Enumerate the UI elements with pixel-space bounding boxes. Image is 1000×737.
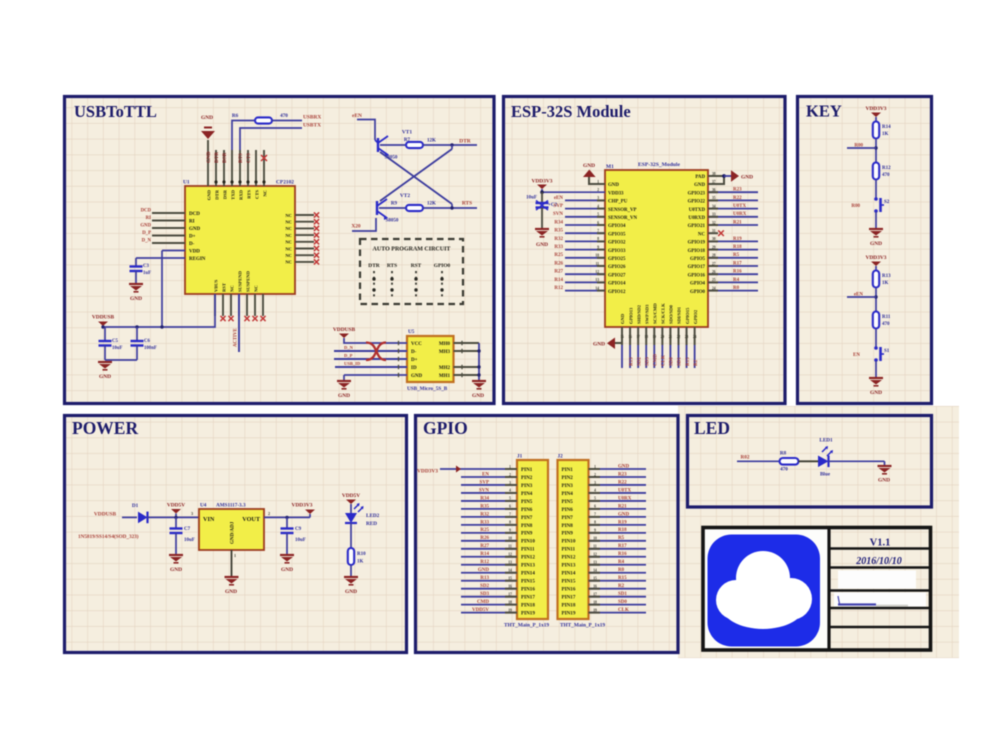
svg-text:PIN15: PIN15 [562,579,576,585]
svg-text:R18: R18 [618,528,627,533]
svg-text:12: 12 [508,553,512,557]
svg-text:R21: R21 [733,220,742,225]
whiteout patch row3 [838,571,916,589]
label GND [593,342,605,348]
designator C3 [143,264,149,269]
wire net VCC [344,338,407,343]
svg-text:PIN16: PIN16 [562,587,576,593]
crossover marker [366,343,386,361]
svg-text:MH0: MH0 [439,342,451,347]
svg-text:C5: C5 [112,339,118,344]
value CP2102 [276,180,294,186]
svg-text:PIN1: PIN1 [562,467,574,473]
net label eEN [854,293,864,298]
svg-text:PIN18: PIN18 [521,603,535,609]
svg-text:VDD5V: VDD5V [167,502,185,508]
svg-text:17: 17 [593,592,597,596]
svg-text:SCS/CMD: SCS/CMD [652,303,657,324]
wire net REGIN [136,257,185,259]
svg-text:12K: 12K [427,139,436,144]
value 10uF [184,538,195,543]
svg-text:GND: GND [870,241,882,247]
resistor R8 [780,458,799,465]
wire [135,258,137,267]
svg-text:470: 470 [280,113,288,119]
svg-text:GPIO17: GPIO17 [688,265,706,270]
pin number 3 [191,511,193,516]
svg-text:PIN9: PIN9 [521,531,533,537]
junction [174,516,177,519]
net label D_P [142,231,151,236]
svg-text:PIN9: PIN9 [562,531,574,537]
svg-text:GND: GND [338,393,350,399]
junction [450,206,453,209]
svg-text:PIN11: PIN11 [562,547,576,553]
ground power up [583,170,596,178]
svg-text:11: 11 [508,545,512,549]
svg-text:PIN8: PIN8 [562,523,574,529]
wire net ID [335,366,407,368]
svg-text:U0RXD: U0RXD [688,216,705,221]
svg-text:18: 18 [508,600,512,604]
wire net R00 [847,147,876,149]
svg-text:eEN: eEN [352,113,362,119]
svg-text:PIN13: PIN13 [562,563,576,569]
svg-text:15: 15 [593,577,597,581]
svg-text:TXD: TXD [231,189,236,199]
label GND [870,390,882,396]
svg-text:4: 4 [509,489,511,493]
svg-text:S2: S2 [884,200,890,205]
value 12K [427,139,436,144]
svg-text:14: 14 [508,569,512,573]
resistor R12 [873,163,879,180]
svg-text:D_N: D_N [142,239,152,244]
svg-text:R35: R35 [554,229,563,234]
svg-text:POWER: POWER [72,418,138,438]
wire [541,208,543,230]
svg-text:5: 5 [594,497,596,501]
value THT_Main_P_1x19 [560,623,605,629]
resistor R11 [873,312,879,329]
transistor VT2 [377,199,388,220]
wire [122,516,137,518]
svg-text:1uF: 1uF [143,271,151,276]
junction [874,295,877,298]
svg-text:22: 22 [677,335,681,339]
junction [540,190,544,194]
svg-text:R6: R6 [232,113,239,119]
svg-text:5: 5 [509,497,511,501]
svg-text:CMD: CMD [477,600,489,605]
svg-text:RTS: RTS [238,153,244,163]
wire net ACTIVE [238,294,240,352]
svg-text:DTR: DTR [459,139,470,145]
svg-text:14: 14 [593,569,597,573]
wires ESP right pins [708,192,758,290]
capacitor C9 [281,517,294,555]
svg-text:32: 32 [712,221,716,225]
net label GND [140,224,151,229]
svg-text:MH1: MH1 [439,374,451,379]
svg-text:DCD: DCD [189,212,200,217]
svg-text:RTS: RTS [247,190,252,199]
svg-text:R00: R00 [851,204,860,209]
svg-text:U0TX: U0TX [733,204,746,209]
pin number 1 [234,553,236,558]
svg-text:14: 14 [595,286,599,290]
net labels ESP bottom [629,354,699,366]
wire [451,204,453,208]
svg-text:PIN10: PIN10 [521,539,535,545]
svg-text:37: 37 [712,180,716,184]
svg-text:X20: X20 [351,224,361,230]
svg-text:U4: U4 [200,503,207,509]
wire [350,565,352,577]
svg-text:R10: R10 [357,552,366,557]
svg-text:PIN13: PIN13 [521,563,535,569]
svg-text:19: 19 [508,608,512,612]
auto program signals DTR RTS RST GPIO0 [368,263,450,299]
svg-text:2: 2 [594,473,596,477]
svg-text:VDDUSB: VDDUSB [92,315,115,321]
svg-text:USB_Micro_5S_B: USB_Micro_5S_B [407,386,448,392]
svg-text:1: 1 [594,465,596,469]
power VDD3V3 [292,502,315,517]
svg-text:U0TXD: U0TXD [689,208,706,213]
svg-text:PIN4: PIN4 [562,491,574,497]
svg-text:GPIO16: GPIO16 [688,273,706,278]
svg-text:RI: RI [189,220,195,225]
net label eEN [352,113,362,119]
wire [737,460,779,462]
wire net DTR [423,144,477,146]
svg-text:2016/10/10: 2016/10/10 [855,556,902,567]
svg-text:21: 21 [669,335,673,339]
svg-text:SUSPEND: SUSPEND [238,270,243,292]
svg-text:GND: GND [536,242,548,248]
value ESP-32S_Module [638,162,680,168]
svg-text:3: 3 [191,511,193,516]
svg-text:GPIO12: GPIO12 [608,290,626,295]
switch S1 [874,346,884,362]
svg-text:35: 35 [712,196,716,200]
svg-text:PIN19: PIN19 [521,611,535,617]
pin numbers GPIO [508,465,597,613]
svg-text:GND: GND [478,568,490,573]
svg-text:R4: R4 [618,560,625,565]
schematic sheet backing lower-right [678,406,959,658]
svg-text:USBRX: USBRX [303,114,321,120]
panel KEY [798,97,932,404]
label GND [583,163,595,169]
net label DCD [141,209,152,214]
svg-text:SD2: SD2 [480,584,489,589]
ground [878,466,892,474]
label AUTO PROGRAM CIRCUIT [373,247,451,253]
capacitor C3 [130,267,143,272]
date 2016/10/10 [855,556,902,567]
value RED [366,521,377,527]
svg-text:1: 1 [234,553,236,558]
svg-text:THT_Main_P_1x19: THT_Main_P_1x19 [560,623,605,629]
designator R10 [357,552,366,557]
svg-text:9: 9 [509,529,511,533]
svg-text:RI: RI [146,216,151,221]
svg-text:13: 13 [508,561,512,565]
svg-text:GPIO0: GPIO0 [434,263,451,269]
svg-text:GPIO33: GPIO33 [608,249,626,254]
wire [350,504,352,513]
svg-text:38: 38 [712,172,716,176]
label GND [338,393,350,399]
connector U5 USB_Micro [407,336,454,382]
svg-text:26: 26 [712,270,716,274]
svg-text:R5: R5 [733,253,740,258]
svg-text:23: 23 [685,335,689,339]
resistor R6 [255,117,272,123]
svg-text:PIN14: PIN14 [562,571,576,577]
wire net VDDUSB [103,294,215,327]
title ESP-32S Module [511,102,631,121]
svg-text:PIN2: PIN2 [521,475,533,481]
junction [101,325,163,328]
svg-text:PIN7: PIN7 [521,515,533,521]
svg-text:27: 27 [712,262,716,266]
svg-text:M1: M1 [606,164,614,170]
svg-text:S1: S1 [884,349,890,354]
svg-text:GND: GND [741,175,753,181]
svg-text:VDD33: VDD33 [608,191,624,196]
svg-text:19: 19 [652,335,656,339]
svg-text:SD2: SD2 [637,357,642,366]
svg-text:10uF: 10uF [526,196,537,201]
resistor R13 [873,271,879,288]
svg-text:R14: R14 [882,125,891,130]
wire net D- [334,350,407,352]
wire [207,140,209,150]
value 470 [882,173,890,178]
svg-text:6: 6 [594,505,596,509]
label GND [741,175,753,181]
svg-text:10: 10 [593,537,597,541]
svg-text:R12: R12 [882,166,891,171]
svg-text:VOUT: VOUT [242,516,261,523]
pin labels RTS CTS [238,153,252,163]
U5 mount pins [454,343,480,375]
svg-text:PIN2: PIN2 [562,475,574,481]
svg-text:R13: R13 [882,274,891,279]
svg-text:DTR: DTR [368,263,379,269]
svg-text:R27: R27 [554,270,563,275]
svg-text:NC: NC [254,285,259,292]
svg-text:ID: ID [411,366,417,371]
wire [875,329,877,348]
svg-text:VDD3V3: VDD3V3 [292,502,313,508]
value 470 [882,322,890,327]
module M1 ESP-32S [605,170,708,327]
designator LED1 [819,438,833,444]
title block row lines [829,549,931,628]
svg-text:R15: R15 [618,576,627,581]
svg-text:1K: 1K [357,560,364,565]
led LED1 [818,446,833,467]
svg-text:16: 16 [508,585,512,589]
svg-text:PIN11: PIN11 [521,547,535,553]
wires J2 right [589,469,647,613]
svg-text:1K: 1K [882,281,889,286]
svg-text:13: 13 [595,278,599,282]
svg-text:NC: NC [263,190,268,197]
svg-text:EN: EN [482,472,489,477]
pin numbers ESP right [712,172,716,291]
svg-text:33: 33 [712,213,716,217]
svg-text:GND: GND [878,478,890,484]
svg-text:6: 6 [597,221,599,225]
svg-text:RST: RST [411,263,422,269]
wire cross [380,149,452,204]
net label USBTX [303,122,321,128]
svg-text:GPIO19: GPIO19 [688,241,706,246]
svg-text:VDD3V3: VDD3V3 [417,469,438,475]
svg-text:R25: R25 [554,253,563,258]
svg-text:SVN: SVN [553,212,563,217]
svg-text:GPIO: GPIO [423,418,468,438]
svg-text:USBToTTL: USBToTTL [74,102,157,121]
svg-text:SD1: SD1 [618,592,627,597]
designator U4 [200,503,207,509]
power VDD3V3 [532,178,553,189]
svg-text:GPIO25: GPIO25 [608,257,626,262]
wire [264,516,310,518]
svg-text:9: 9 [597,245,599,249]
designator J1 [517,454,523,460]
wire net USBTX [240,128,302,150]
wire [478,343,480,381]
net label EN [853,353,860,358]
junction [722,174,726,178]
svg-text:NC: NC [285,260,292,265]
power VDD5V [342,493,360,504]
svg-text:PIN14: PIN14 [521,571,535,577]
svg-text:NC: NC [285,253,292,258]
svg-text:GPIO18: GPIO18 [688,249,706,254]
svg-text:V1.1: V1.1 [870,538,891,549]
svg-text:24: 24 [693,335,697,339]
svg-text:GND: GND [130,296,142,302]
designator R9 [391,202,398,207]
svg-text:GPIO14: GPIO14 [608,282,626,287]
designator R6 [232,113,239,119]
pin number 2 [268,511,270,516]
svg-text:GPIO13: GPIO13 [628,307,633,324]
resistor R9 [406,205,423,211]
svg-text:R11: R11 [882,315,891,320]
svg-text:THT_Main_P_1x19: THT_Main_P_1x19 [504,623,549,629]
svg-text:SWP/SD3: SWP/SD3 [644,304,649,324]
svg-text:8: 8 [509,521,511,525]
power VDD3V3 [866,255,887,266]
svg-text:RST: RST [222,283,227,292]
svg-text:9: 9 [594,529,596,533]
title USBToTTL [74,102,157,121]
wire [875,117,877,122]
svg-text:C6: C6 [144,339,150,344]
svg-text:25: 25 [712,278,716,282]
label GND [345,589,357,595]
power VDD3V3 [417,466,461,475]
svg-text:R0: R0 [618,568,625,573]
svg-text:VDDUSB: VDDUSB [333,327,356,333]
signature tick [838,596,840,604]
connector J1 [517,460,548,619]
junction [477,349,480,376]
svg-text:13: 13 [593,561,597,565]
capacitor C7 [170,517,183,555]
svg-text:2: 2 [597,188,599,192]
svg-text:R9: R9 [391,202,398,207]
svg-text:SHD/SD2: SHD/SD2 [636,304,641,324]
net label VDDUSB [94,512,117,518]
svg-text:VDD3V3: VDD3V3 [532,178,553,184]
svg-text:R8: R8 [780,451,787,457]
resistor R14 [873,122,879,139]
svg-text:10uF: 10uF [295,538,306,543]
wire [380,144,405,146]
title GPIO [423,418,468,438]
label GND [170,567,182,573]
svg-text:R14: R14 [480,552,489,557]
wire net PAD [708,176,724,184]
wire net USBRX [232,121,254,151]
label GND [130,296,142,302]
svg-text:3: 3 [509,481,511,485]
value Blue [820,472,831,478]
net labels GPIO left [472,472,489,613]
svg-text:17: 17 [636,335,640,339]
svg-text:NC: NC [285,233,292,238]
svg-text:10uF: 10uF [112,346,122,351]
svg-text:CLK: CLK [662,355,667,366]
wire [379,207,405,209]
svg-text:2: 2 [268,511,270,516]
power VDDUSB [92,315,115,326]
svg-text:R12: R12 [480,560,489,565]
svg-text:eEN: eEN [554,196,564,201]
svg-text:7: 7 [509,513,511,517]
auto program circuit box [360,239,463,304]
junction [285,516,288,519]
wire net GND [344,374,407,376]
svg-text:GND: GND [618,464,630,469]
svg-text:GPIO32: GPIO32 [608,241,626,246]
svg-text:R22: R22 [618,480,627,485]
svg-text:LED2: LED2 [366,513,380,519]
svg-text:PIN18: PIN18 [562,603,576,609]
net label D_N [344,345,354,350]
svg-text:GND: GND [201,115,213,121]
net label ACTIVE [234,328,239,347]
svg-text:R2: R2 [694,359,699,366]
designator C7 [184,527,191,532]
wire net X20 [352,218,376,231]
svg-text:ESP-32S_Module: ESP-32S_Module [638,162,680,168]
wire [231,550,233,577]
svg-text:R33: R33 [554,245,563,250]
svg-text:R16: R16 [618,552,627,557]
panel GPIO [416,416,679,653]
svg-text:NC: NC [285,246,292,251]
